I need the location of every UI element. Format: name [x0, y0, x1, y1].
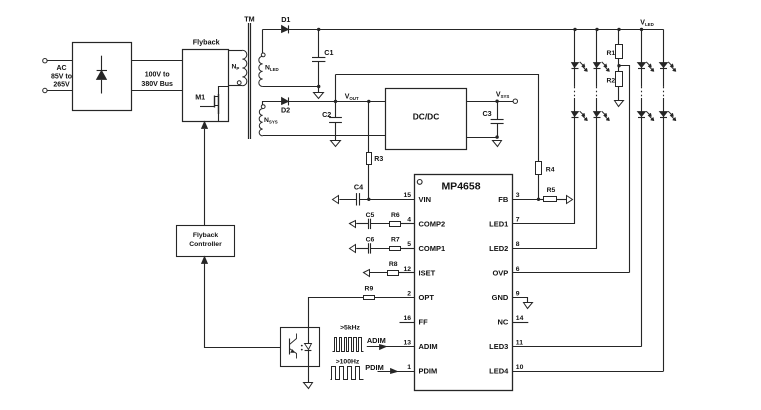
svg-text:AC: AC — [56, 65, 66, 72]
svg-text:R2: R2 — [606, 77, 615, 84]
svg-text:C6: C6 — [366, 237, 375, 244]
svg-text:>100Hz: >100Hz — [336, 358, 360, 365]
svg-text:13: 13 — [403, 339, 411, 346]
svg-text:OPT: OPT — [419, 293, 435, 302]
svg-text:LED1: LED1 — [489, 219, 508, 228]
svg-text:FF: FF — [419, 318, 429, 327]
svg-text:Controller: Controller — [189, 241, 222, 248]
svg-text:12: 12 — [403, 266, 411, 273]
svg-text:380V Bus: 380V Bus — [141, 81, 173, 88]
svg-text:>5kHz: >5kHz — [340, 325, 360, 332]
svg-text:100V to: 100V to — [145, 72, 170, 79]
svg-text:R9: R9 — [365, 286, 374, 293]
svg-text:R6: R6 — [391, 212, 400, 219]
svg-text:R3: R3 — [374, 156, 383, 163]
svg-text:TM: TM — [244, 15, 254, 24]
svg-text:2: 2 — [407, 290, 411, 297]
svg-text:C1: C1 — [324, 48, 333, 57]
svg-text:15: 15 — [403, 192, 411, 199]
svg-text:C3: C3 — [482, 109, 491, 118]
svg-text:FB: FB — [498, 195, 509, 204]
svg-text:3: 3 — [516, 192, 520, 199]
svg-text:DC/DC: DC/DC — [413, 111, 440, 121]
svg-text:9: 9 — [516, 290, 520, 297]
svg-text:D1: D1 — [281, 15, 290, 24]
svg-text:NC: NC — [497, 318, 508, 327]
svg-text:C4: C4 — [354, 182, 363, 191]
svg-text:7: 7 — [516, 217, 520, 224]
svg-text:C5: C5 — [366, 212, 375, 219]
svg-text:10: 10 — [516, 364, 524, 371]
svg-text:D2: D2 — [281, 106, 290, 115]
svg-text:Flyback: Flyback — [193, 38, 220, 47]
svg-text:GND: GND — [492, 293, 509, 302]
svg-text:ADIM: ADIM — [419, 342, 438, 351]
svg-text:5: 5 — [407, 241, 411, 248]
svg-text:16: 16 — [403, 315, 411, 322]
svg-text:ADIM: ADIM — [367, 336, 386, 345]
svg-text:R7: R7 — [391, 237, 400, 244]
svg-text:COMP1: COMP1 — [419, 244, 446, 253]
svg-text:VIN: VIN — [419, 195, 432, 204]
svg-text:R5: R5 — [547, 187, 556, 194]
svg-text:LED4: LED4 — [489, 367, 509, 376]
svg-text:R1: R1 — [606, 50, 615, 57]
svg-text:R4: R4 — [546, 166, 555, 173]
svg-text:6: 6 — [516, 266, 520, 273]
svg-text:PDIM: PDIM — [365, 363, 383, 372]
svg-text:PDIM: PDIM — [419, 367, 438, 376]
svg-text:1: 1 — [407, 364, 411, 371]
svg-text:OVP: OVP — [492, 269, 508, 278]
svg-text:MP4658: MP4658 — [441, 180, 480, 192]
svg-text:LED3: LED3 — [489, 342, 508, 351]
svg-text:85V to: 85V to — [51, 74, 72, 81]
svg-text:LED2: LED2 — [489, 244, 508, 253]
svg-text:265V: 265V — [53, 82, 70, 89]
svg-text:M1: M1 — [195, 93, 205, 102]
svg-text:ISET: ISET — [419, 269, 436, 278]
svg-text:4: 4 — [407, 217, 411, 224]
svg-text:C2: C2 — [322, 110, 331, 119]
svg-text:14: 14 — [516, 315, 524, 322]
svg-text:8: 8 — [516, 241, 520, 248]
svg-text:COMP2: COMP2 — [419, 219, 446, 228]
svg-text:R8: R8 — [389, 261, 398, 268]
svg-text:11: 11 — [516, 339, 523, 346]
svg-text:Flyback: Flyback — [193, 232, 219, 239]
